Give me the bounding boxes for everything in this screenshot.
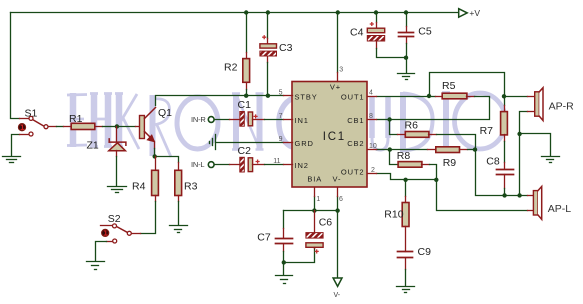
wire node D to ground: [283, 263, 285, 275]
svg-text:C2: C2: [238, 145, 252, 157]
wire C3 to STBY line: [267, 63, 269, 96]
wire bus down to speaker common: [476, 150, 505, 196]
capacitor C9: [398, 252, 413, 270]
node BIA junction: [312, 208, 316, 212]
ground below C4 C5: [398, 74, 415, 80]
capacitor C2: [230, 157, 265, 172]
svg-text:R7: R7: [480, 125, 494, 137]
svg-text:R10: R10: [384, 209, 403, 221]
node C3-STBY junction: [266, 94, 270, 98]
node K junction R7 top: [502, 94, 506, 98]
svg-text:STBY: STBY: [295, 93, 318, 102]
wire ground branch: [520, 134, 551, 156]
pin 11 IN2 stub: [284, 164, 293, 166]
node rail-V+ junction: [336, 10, 340, 14]
wire C2 to IN2: [265, 164, 284, 166]
capacitor C8: [497, 163, 514, 189]
wire common node to AP-L cold: [505, 195, 528, 197]
wire R6 to vertical bus: [437, 135, 476, 150]
ground below R3: [170, 226, 188, 233]
svg-text:6: 6: [339, 196, 343, 203]
svg-text:IC1: IC1: [323, 131, 346, 143]
wire C7 to node D: [283, 252, 285, 263]
wire rail to R2: [246, 13, 248, 53]
power terminal +V: [459, 9, 468, 18]
svg-text:5: 5: [279, 90, 283, 97]
wire C8 to common node: [504, 189, 506, 196]
wire IN-R to C1: [215, 119, 230, 121]
resistor R5: [430, 93, 475, 99]
node R2-STBY junction: [244, 94, 248, 98]
svg-text:V+: V+: [330, 83, 341, 92]
ground below Z1: [108, 187, 127, 193]
ground GRD left-pointing: [210, 135, 216, 150]
svg-text:BIA: BIA: [307, 175, 322, 184]
svg-text:V-: V-: [334, 292, 341, 299]
wire node G down to R8: [390, 150, 399, 165]
svg-text:+V: +V: [469, 8, 480, 18]
wire C4 bottom to node C: [377, 49, 407, 58]
node C junction C4-C5: [404, 56, 408, 60]
wire Z1 to ground: [116, 157, 118, 186]
node G junction CB2: [388, 147, 392, 151]
wire Q1 collector to STBY line: [156, 96, 284, 106]
zener Z1: [109, 127, 126, 157]
resistor R10: [402, 180, 409, 252]
wire OUT2 from IC: [377, 174, 437, 180]
resistor R8: [398, 162, 429, 168]
svg-text:2: 2: [371, 167, 375, 174]
wire R7 to C8: [504, 142, 506, 163]
wire R1 to node A: [103, 126, 117, 128]
transistor Q1: [140, 108, 156, 149]
wire node A to Q1 base: [117, 126, 136, 128]
wire left rail down to S1: [11, 13, 20, 119]
capacitor C7: [276, 229, 293, 252]
svg-text:11: 11: [273, 158, 280, 165]
ground speaker common: [542, 157, 560, 163]
svg-text:8: 8: [369, 113, 373, 120]
wire R8 to OUT2 node: [430, 165, 437, 180]
ground below S2: [87, 262, 105, 270]
wire node D to C6 bottom: [284, 249, 315, 263]
wire rail to C3: [267, 13, 269, 39]
resistor R7: [501, 97, 508, 142]
wire OUT2 node to AP-L hot: [437, 180, 528, 211]
svg-text:R6: R6: [405, 120, 419, 132]
wire V- to arrow: [337, 211, 339, 278]
svg-text:V-: V-: [333, 175, 342, 184]
wire OUT1 to node E: [377, 96, 430, 98]
svg-text:7: 7: [279, 113, 283, 120]
svg-text:C9: C9: [418, 246, 432, 258]
wire R5 wrap to CB1 line: [390, 97, 490, 120]
svg-text:C5: C5: [418, 26, 432, 38]
node E junction OUT1: [427, 94, 431, 98]
node L junction C8 bottom: [502, 193, 506, 197]
terminal IN-R: [208, 117, 214, 123]
wire R2 to STBY line: [246, 90, 248, 96]
node D junction: [282, 260, 286, 264]
resistor R4: [152, 157, 159, 202]
node A junction: [115, 124, 119, 128]
svg-text:OUT1: OUT1: [341, 93, 365, 102]
node I junction R10: [403, 178, 407, 182]
wire node F down to R6: [390, 120, 398, 135]
wire BIA V- tie: [284, 210, 338, 212]
wire R9 to vertical bus: [468, 149, 476, 151]
capacitor C6: [306, 211, 323, 253]
wire C9 to ground: [405, 270, 407, 286]
wire R3 to ground: [178, 202, 180, 225]
pin 7 IN1 stub: [284, 119, 293, 121]
svg-text:Q1: Q1: [158, 107, 172, 119]
node rail-C5 junction: [404, 10, 408, 14]
wire rail to pin 3: [337, 13, 339, 73]
pin 3 V+ stub: [337, 73, 339, 82]
resistor R6: [398, 132, 437, 138]
svg-text:IN-R: IN-R: [191, 115, 206, 124]
wire node C to ground: [406, 58, 408, 73]
ground below C9: [397, 287, 415, 293]
wire C5 to node C: [406, 44, 408, 58]
node F junction CB1: [387, 117, 391, 121]
svg-text:R2: R2: [224, 62, 238, 74]
node H junction bus: [473, 147, 477, 151]
wire S2 lower throw to ground: [96, 242, 107, 261]
node V- junction: [335, 208, 339, 212]
svg-text:IN2: IN2: [295, 161, 309, 170]
wire CB2 from IC: [377, 149, 390, 151]
pin 2 OUT2 stub: [368, 173, 377, 175]
pin 8 CB1 stub: [368, 119, 377, 121]
svg-text:C8: C8: [486, 156, 500, 168]
svg-text:R9: R9: [443, 157, 457, 169]
node M junction AP-R cold branch: [517, 193, 521, 197]
node B junction: [153, 154, 157, 158]
pin 5 STBY stub: [284, 95, 293, 97]
svg-text:CB2: CB2: [347, 139, 364, 148]
wire rail to C4: [376, 13, 378, 23]
wire node B to R3 top: [155, 157, 179, 163]
pin 6 V- stub: [337, 188, 339, 197]
capacitor C4: [367, 23, 384, 49]
svg-text:OUT2: OUT2: [341, 168, 365, 177]
node rail-R2 junction: [244, 10, 248, 14]
svg-text:C7: C7: [257, 231, 271, 243]
node N junction ground branch: [517, 132, 521, 136]
resistor R2: [243, 53, 250, 90]
svg-text:S1: S1: [25, 108, 38, 120]
wire C1 to IN1: [265, 119, 284, 121]
svg-text:IN-L: IN-L: [191, 160, 204, 169]
svg-text:GRD: GRD: [295, 139, 314, 148]
svg-text:C3: C3: [279, 42, 293, 54]
pin 9 GRD stub: [284, 142, 293, 144]
svg-text:S2: S2: [108, 213, 121, 225]
node rail-C4 junction: [374, 10, 378, 14]
switch S2: [101, 224, 141, 243]
wire AP-R cold down: [520, 112, 528, 196]
wire GRD ground to pin 9: [216, 142, 284, 144]
wire R4 to S2: [141, 202, 156, 234]
ground below C7: [276, 276, 293, 284]
capacitor C1: [230, 112, 265, 127]
wire IN-L to C2: [215, 164, 230, 166]
capacitor C3: [260, 36, 277, 63]
wire CB1 from IC: [377, 119, 390, 121]
wire node G to R9: [390, 149, 428, 151]
svg-text:4: 4: [369, 90, 373, 97]
svg-text:3: 3: [339, 67, 343, 74]
capacitor C5: [399, 27, 414, 44]
svg-text:9: 9: [279, 136, 283, 143]
terminal IN-L: [208, 162, 214, 168]
wire down to C7: [283, 211, 285, 229]
resistor R9: [428, 147, 468, 153]
ground below S1: [3, 157, 21, 163]
svg-text:10: 10: [369, 143, 377, 150]
svg-text:Z1: Z1: [87, 140, 99, 152]
wire node E detour over R5: [430, 73, 505, 97]
wire Q1 emitter to node B: [154, 149, 156, 157]
svg-text:C6: C6: [319, 217, 333, 229]
svg-text:C1: C1: [238, 99, 252, 111]
wire V- stub down: [337, 197, 339, 211]
svg-text:AP-L: AP-L: [548, 203, 572, 215]
svg-text:R4: R4: [132, 181, 146, 193]
svg-text:R1: R1: [69, 113, 83, 125]
pin 4 OUT1 stub: [368, 96, 377, 98]
speaker AP-R: [528, 88, 544, 121]
resistor R1: [64, 123, 103, 129]
svg-text:CB1: CB1: [347, 116, 364, 125]
wire BIA stub down: [314, 197, 316, 211]
svg-text:1: 1: [316, 196, 320, 203]
pin 1 BIA stub: [314, 188, 316, 197]
switch S1: [18, 116, 56, 136]
wire node K to AP-R hot: [505, 96, 528, 98]
node J junction OUT2-R8: [434, 178, 438, 182]
wire S1 to R1: [57, 126, 64, 128]
svg-text:R8: R8: [397, 150, 411, 162]
svg-text:R5: R5: [442, 80, 456, 92]
wire rail to C5: [406, 13, 408, 27]
svg-text:R3: R3: [184, 181, 198, 193]
pin 10 CB2 stub: [368, 149, 377, 151]
wire top +V rail: [11, 12, 459, 14]
wire S1 lower throw to ground: [12, 135, 20, 156]
speaker AP-L: [528, 187, 542, 220]
node rail-C3 junction: [266, 10, 270, 14]
power terminal V- arrow: [333, 278, 342, 286]
svg-text:AP-R: AP-R: [549, 101, 575, 113]
svg-text:C4: C4: [350, 27, 364, 39]
svg-text:IN1: IN1: [295, 116, 309, 125]
WATERMARK: [67, 92, 506, 157]
resistor R3: [175, 163, 182, 202]
op-amp IC1 body: [292, 82, 367, 188]
